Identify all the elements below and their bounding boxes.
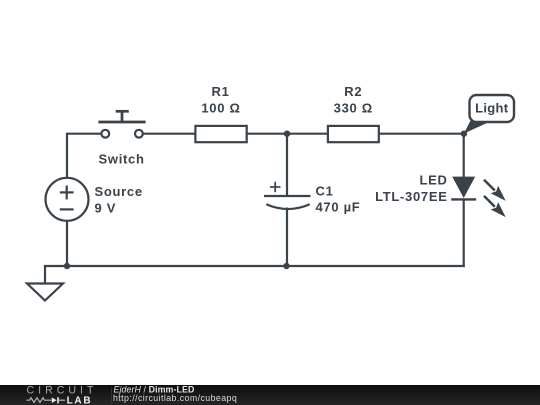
resistor R1 xyxy=(195,126,246,142)
LED D1 xyxy=(451,177,476,200)
junction dot: R1-R2 node to C1 xyxy=(284,131,290,137)
svg-text:LTL-307EE: LTL-307EE xyxy=(375,189,448,204)
LED emission arrow 1 xyxy=(484,180,506,201)
junction dot: source bottom at rail xyxy=(64,263,70,269)
svg-text:470 µF: 470 µF xyxy=(316,200,361,215)
svg-text:C1: C1 xyxy=(316,183,334,198)
wire: C1 branch bottom xyxy=(286,208,288,267)
wire: top corner down to LED anode xyxy=(463,134,465,178)
svg-text:Switch: Switch xyxy=(99,151,145,166)
svg-text:LAB: LAB xyxy=(67,395,93,405)
svg-text:LED: LED xyxy=(419,172,447,187)
wire: C1 branch top xyxy=(286,134,288,196)
resistor R2 xyxy=(328,126,379,142)
svg-text:9 V: 9 V xyxy=(95,201,117,216)
footer separator xyxy=(111,388,113,404)
footer bar xyxy=(0,385,540,405)
wire: LED cathode down to bottom rail xyxy=(463,199,465,267)
footer logo resistor-diode glyph xyxy=(27,398,66,403)
annotation callout Light xyxy=(464,95,514,134)
junction dot: C1 bottom at rail xyxy=(283,263,289,269)
svg-text:100 Ω: 100 Ω xyxy=(201,100,240,115)
wire: R2 to LED corner xyxy=(379,133,465,135)
svg-text:http://circuitlab.com/cubeapq: http://circuitlab.com/cubeapq xyxy=(113,393,237,403)
LED emission arrow 2 xyxy=(484,196,506,217)
svg-text:R1: R1 xyxy=(211,84,229,99)
capacitor C1 polarized xyxy=(264,182,311,209)
junction dot: top right corner node xyxy=(461,131,467,137)
svg-text:Source: Source xyxy=(95,184,143,199)
ground xyxy=(27,284,63,301)
svg-text:330 Ω: 330 Ω xyxy=(334,100,373,115)
svg-text:R2: R2 xyxy=(344,84,362,99)
voltage source V1 xyxy=(46,178,89,221)
svg-text:Light: Light xyxy=(475,100,509,115)
wire: bottom rail xyxy=(45,266,465,284)
switch SW1 pushbutton xyxy=(98,111,145,137)
wire: switch right to R1 xyxy=(143,133,196,135)
wire: source bottom to bottom rail xyxy=(66,221,68,266)
wire: R1 to R2 through node xyxy=(247,133,328,135)
wire: source top to switch left xyxy=(67,134,102,178)
